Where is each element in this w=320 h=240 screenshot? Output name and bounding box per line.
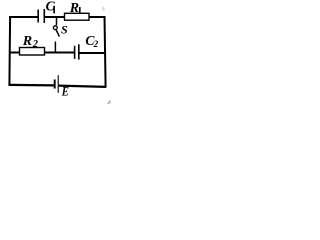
svg-text:R: R (69, 1, 79, 16)
svg-text:2: 2 (32, 39, 38, 50)
svg-text:2: 2 (93, 39, 99, 49)
svg-text:R: R (22, 34, 32, 49)
svg-text:S: S (61, 23, 68, 37)
svg-text:E: E (61, 83, 69, 98)
